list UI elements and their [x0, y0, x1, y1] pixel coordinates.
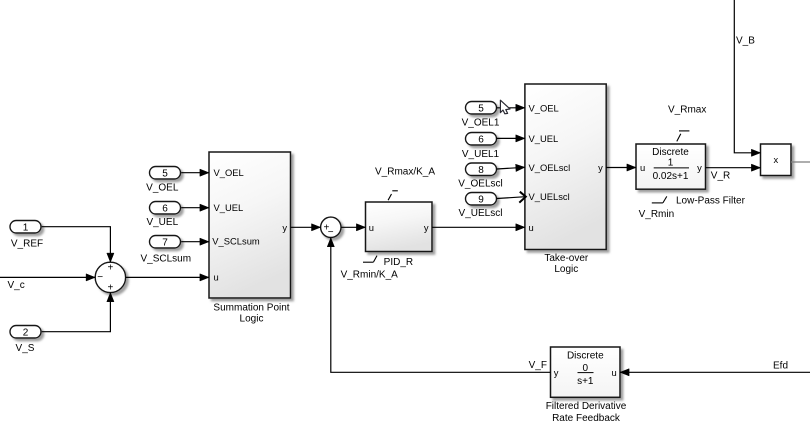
svg-text:u: u	[214, 272, 219, 283]
svg-text:9: 9	[478, 194, 484, 205]
svg-text:V_SCLsum: V_SCLsum	[141, 253, 192, 264]
svg-text:y: y	[282, 222, 287, 233]
svg-text:Filtered Derivative: Filtered Derivative	[546, 401, 627, 412]
svg-text:V_S: V_S	[16, 343, 35, 354]
svg-text:Summation Point: Summation Point	[213, 302, 289, 313]
svg-text:u: u	[640, 162, 645, 173]
svg-text:V_Rmax: V_Rmax	[668, 104, 706, 115]
svg-text:V_OEL1: V_OEL1	[462, 117, 500, 128]
svg-text:V_OELscl: V_OELscl	[529, 162, 571, 173]
svg-text:V_Rmin: V_Rmin	[639, 209, 675, 220]
svg-text:V_UEL: V_UEL	[529, 133, 559, 144]
svg-text:6: 6	[478, 134, 484, 145]
svg-text:V_B: V_B	[736, 36, 755, 47]
svg-text:u: u	[529, 222, 534, 233]
svg-text:Logic: Logic	[554, 264, 578, 275]
svg-text:Efd: Efd	[773, 361, 788, 372]
svg-text:V_c: V_c	[8, 280, 25, 291]
svg-text:7: 7	[162, 237, 168, 248]
svg-text:5: 5	[162, 168, 168, 179]
svg-text:V_F: V_F	[529, 360, 547, 371]
svg-text:V_Rmin/K_A: V_Rmin/K_A	[341, 270, 399, 281]
svg-text:V_OEL: V_OEL	[146, 183, 179, 194]
svg-text:−: −	[97, 272, 103, 283]
svg-text:Rate Feedback: Rate Feedback	[552, 413, 621, 424]
svg-text:V_UELscl: V_UELscl	[459, 208, 503, 219]
svg-text:u: u	[611, 367, 616, 378]
svg-text:Discrete: Discrete	[567, 351, 604, 362]
svg-text:PID_R: PID_R	[384, 257, 413, 268]
svg-text:V_UEL: V_UEL	[214, 202, 244, 213]
svg-text:y: y	[424, 222, 429, 233]
svg-text:u: u	[369, 222, 374, 233]
svg-text:V_UELscl: V_UELscl	[529, 191, 570, 202]
svg-text:V_OEL: V_OEL	[529, 102, 559, 113]
svg-text:Low-Pass Filter: Low-Pass Filter	[676, 195, 746, 206]
svg-text:5: 5	[478, 103, 484, 114]
svg-text:x: x	[773, 154, 778, 165]
svg-text:V_OEL: V_OEL	[214, 167, 244, 178]
svg-text:y: y	[598, 162, 603, 173]
svg-text:2: 2	[23, 327, 29, 338]
svg-text:s+1: s+1	[577, 376, 594, 387]
svg-text:Logic: Logic	[240, 314, 264, 325]
svg-text:Discrete: Discrete	[652, 147, 689, 158]
svg-text:+: +	[107, 263, 113, 274]
svg-text:V_SCLsum: V_SCLsum	[212, 236, 260, 247]
svg-text:0.02s+1: 0.02s+1	[653, 171, 689, 182]
svg-text:V_Rmax/K_A: V_Rmax/K_A	[375, 167, 435, 178]
svg-text:+: +	[107, 282, 113, 293]
svg-text:6: 6	[162, 203, 168, 214]
svg-text:Take-over: Take-over	[544, 253, 589, 264]
svg-text:V_R: V_R	[711, 170, 730, 181]
svg-text:8: 8	[478, 165, 484, 176]
svg-text:V_REF: V_REF	[11, 238, 43, 249]
svg-text:V_OELscl: V_OELscl	[458, 178, 502, 189]
svg-text:V_UEL1: V_UEL1	[462, 149, 500, 160]
svg-text:−: −	[328, 227, 334, 238]
svg-text:1: 1	[668, 157, 674, 168]
svg-text:y: y	[554, 367, 559, 378]
svg-text:V_UEL: V_UEL	[146, 217, 178, 228]
svg-text:1: 1	[23, 222, 29, 233]
svg-text:y: y	[697, 162, 702, 173]
